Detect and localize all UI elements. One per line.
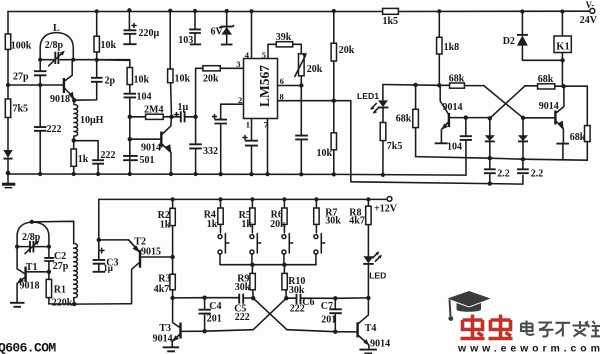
svg-text:C4: C4 (209, 301, 221, 312)
resistor 1k8 (437, 11, 460, 85)
node coil bottom (72, 138, 76, 142)
svg-text:1k: 1k (78, 154, 89, 165)
svg-text:www.eeworm.com: www.eeworm.com (457, 343, 600, 354)
node T4 collector (366, 296, 370, 300)
node rail R2 (171, 197, 175, 201)
svg-text:1k: 1k (160, 219, 171, 230)
wire base T2 (141, 256, 173, 258)
resistor R1 220k (46, 272, 73, 309)
node rail R7 (314, 197, 318, 201)
resistor 20k variable (295, 52, 323, 85)
resistor R2 1k (158, 199, 176, 257)
transistor Q 9014b left (435, 85, 463, 143)
resistor 68k right (570, 126, 590, 161)
svg-text:+12V: +12V (374, 204, 398, 215)
wire base 9014a (130, 138, 161, 140)
svg-text:6V: 6V (211, 27, 224, 38)
capacitor 222 emitter-left (34, 85, 62, 174)
node bus pin1 (249, 172, 253, 176)
svg-text:6: 6 (280, 76, 284, 86)
inductor 10uH (74, 100, 104, 140)
svg-text:4: 4 (245, 50, 250, 60)
node C7 bottom (333, 330, 337, 334)
wire base 9014c (523, 117, 555, 119)
svg-text:9015: 9015 (141, 247, 161, 258)
svg-text:9014: 9014 (443, 102, 463, 113)
node coil2 bottom (72, 302, 76, 306)
wire pin 6 (278, 76, 302, 86)
node tank2 left (15, 245, 19, 249)
capacitor 332 (189, 68, 218, 174)
node base T1 C2 (47, 270, 51, 274)
capacitor 220u (123, 10, 159, 44)
node tank left (38, 58, 42, 62)
capacitor 2.2 right (517, 159, 543, 179)
node rail 1k8 collector (437, 83, 441, 87)
svg-text:2.2: 2.2 (497, 168, 510, 179)
node tank 10k tap (95, 58, 99, 62)
svg-text:9018: 9018 (20, 281, 40, 292)
ground main (2, 171, 15, 188)
wire +12V rail (99, 198, 387, 200)
svg-text:201: 201 (321, 315, 336, 326)
node bus emitter 9014a (169, 172, 173, 176)
capacitor 103 (178, 11, 201, 46)
svg-text:2p: 2p (105, 75, 116, 86)
diode flipflop right (518, 118, 528, 159)
node pin6 20k (299, 83, 303, 87)
resistor 20k top right (331, 11, 355, 101)
resistor 100k (5, 34, 31, 52)
resistor 68k top right (538, 74, 555, 89)
resistor R9 30k (235, 265, 256, 298)
node base 9018 (38, 83, 63, 87)
node bus 222 (96, 172, 100, 176)
svg-text:T3: T3 (159, 323, 171, 334)
svg-text:30k: 30k (325, 215, 341, 226)
inductor loop antenna 2 (17, 222, 49, 247)
capacitor C7 201 (321, 298, 342, 331)
node rail R4 (218, 197, 222, 201)
node bus 7k5 (381, 173, 385, 177)
svg-text:20k: 20k (307, 64, 323, 75)
logo chongchong characters (461, 315, 513, 339)
node bus 10k4 (332, 172, 336, 176)
transistor T4 9014 (358, 298, 391, 354)
switch button 2 (250, 234, 261, 265)
svg-text:2M4: 2M4 (144, 105, 163, 116)
node rail collector right (562, 84, 566, 88)
node collector T3 (170, 296, 174, 300)
switch button 3 (282, 234, 293, 265)
node button bus R10 (282, 263, 286, 267)
resistor R3 4k7 (154, 257, 176, 298)
svg-text:1μ: 1μ (178, 102, 189, 113)
svg-text:10μH: 10μH (80, 115, 104, 126)
node rail R6 (282, 197, 286, 201)
node rail 68k2 (413, 83, 417, 87)
wire ground bus (8, 174, 466, 175)
capacitor 501 (123, 155, 154, 166)
wire button bus (220, 264, 316, 266)
node C5 right R9 (251, 296, 255, 300)
svg-text:20k: 20k (203, 73, 219, 84)
capacitor C5 222 (234, 294, 253, 323)
capacitor 104 mid (124, 91, 152, 174)
resistor 1k rf (71, 140, 89, 174)
wire bottom collector line T2 (49, 263, 139, 304)
LED LED1 (357, 85, 388, 123)
svg-text:5: 5 (262, 50, 266, 60)
inductor L loop antenna (40, 23, 73, 60)
svg-text:4k7: 4k7 (154, 284, 170, 295)
node top wire 20k (332, 9, 336, 13)
node base diagA (521, 116, 525, 120)
svg-text:10k: 10k (134, 74, 150, 85)
resistor 10k third (168, 11, 191, 117)
svg-text:103: 103 (178, 35, 193, 46)
node pin8line 2.2a (488, 181, 492, 185)
wire left edge vertical (7, 12, 9, 175)
svg-text:R1: R1 (54, 285, 66, 296)
svg-text:20k: 20k (270, 219, 286, 230)
svg-text:7k5: 7k5 (387, 141, 403, 152)
svg-text:LED: LED (369, 271, 386, 281)
node top wire 10k3 (168, 9, 172, 13)
wire pin 5 and resistor 39k (262, 32, 302, 60)
svg-text:10k: 10k (101, 40, 117, 51)
wire pin8 output net (334, 101, 523, 184)
svg-text:9018: 9018 (50, 94, 70, 105)
svg-text:222: 222 (290, 304, 305, 315)
wire flipflop left rail (383, 85, 484, 86)
transistor Q 9014a (141, 117, 172, 174)
resistor R10 30k (282, 265, 306, 298)
svg-text:9014: 9014 (141, 142, 161, 153)
node bus pin6cap (299, 172, 303, 176)
svg-text:4k7: 4k7 (349, 216, 365, 227)
node C7 top (333, 296, 337, 300)
resistor 1k5 (383, 8, 399, 27)
node bus 501 (128, 172, 132, 176)
terminal +12V (374, 197, 398, 215)
capacitor C6 222 (286, 294, 335, 315)
svg-text:D2: D2 (503, 36, 515, 47)
node bus pin2 (219, 172, 223, 176)
resistor 68k top left (449, 74, 465, 89)
node base 104 (464, 115, 468, 119)
svg-text:8: 8 (280, 92, 284, 102)
node C3 (97, 238, 101, 242)
capacitor 1u coupling (172, 102, 196, 122)
wire base T1 (27, 271, 49, 273)
svg-text:68k: 68k (570, 132, 586, 143)
node tank2 right (47, 245, 51, 249)
capacitor C4 201 (199, 298, 222, 332)
wire pin 4 (245, 9, 254, 60)
node top wire 6V (225, 9, 229, 13)
capacitor 2.2 left (484, 158, 510, 183)
node bus 332 (194, 172, 198, 176)
svg-text:9014: 9014 (370, 338, 390, 349)
node emitterline diode1 (488, 156, 492, 160)
capacitor pin6 filter (295, 86, 308, 175)
node top wire K1 (560, 9, 564, 13)
logo url (457, 343, 600, 354)
svg-text:30k: 30k (235, 282, 251, 293)
svg-text:104: 104 (137, 91, 152, 102)
node top wire 10k (95, 9, 99, 13)
logo site name chinese (521, 321, 600, 337)
node D2 K1 (560, 58, 564, 62)
svg-text:10k: 10k (317, 148, 333, 159)
node top wire 220u (127, 8, 131, 12)
svg-text:68k: 68k (449, 74, 465, 85)
svg-text:1k: 1k (207, 219, 218, 230)
resistor 20k input (196, 66, 244, 85)
node rail R8 (366, 197, 370, 201)
wire T4 base line (287, 330, 357, 332)
node bus 222-left (38, 172, 42, 176)
svg-text:501: 501 (140, 155, 155, 166)
wire T4 collector row (335, 297, 368, 299)
switch button 4 (314, 234, 325, 265)
node 1u right (193, 115, 197, 119)
svg-text:C7: C7 (321, 301, 333, 312)
svg-text:220μ: 220μ (139, 28, 160, 39)
node C4 top (202, 296, 206, 300)
node tank right (71, 58, 75, 62)
svg-text:3: 3 (236, 59, 240, 69)
node pin8 (332, 99, 336, 103)
resistor R7 30k (314, 199, 342, 232)
node base 9014a (128, 137, 132, 141)
switch button 1 (218, 234, 229, 265)
node emitterline diode2 (521, 157, 525, 161)
svg-text:LM567: LM567 (257, 65, 272, 107)
diode D1 (3, 150, 12, 159)
capacitor 104 flipflop (447, 118, 472, 176)
capacitor 222 rf (74, 141, 116, 174)
wire cross coupling B2 (253, 298, 286, 330)
transistor T1 9018 (10, 247, 40, 307)
resistor 2M4 (130, 105, 172, 120)
capacitor 2/8p variable 2 (17, 232, 49, 254)
wire base T3 (181, 330, 253, 332)
wire flipflop emitter line (416, 157, 588, 161)
resistor R4 1k (204, 199, 224, 232)
resistor R8 4k7 (349, 199, 371, 256)
wire pin 1 and capacitor (243, 119, 258, 175)
LED indicator bottom (363, 251, 386, 298)
wire cross coupling A2 (253, 298, 287, 330)
node top wire 1k8 (437, 9, 441, 13)
node arch top tap (30, 220, 34, 224)
op-amp U1 LM567 (244, 59, 278, 119)
svg-text:K1: K1 (556, 41, 569, 52)
resistor 10k mid (97, 60, 150, 93)
wire arch top to coil (32, 221, 74, 243)
svg-text:20k: 20k (339, 45, 355, 56)
transistor T3 9014 (153, 298, 181, 351)
inductor choke 2 (74, 244, 78, 305)
diode zener 6V (211, 11, 235, 45)
svg-text:39k: 39k (276, 32, 292, 43)
resistor 10k fourth (317, 101, 337, 175)
node top wire D2 (520, 9, 524, 13)
svg-text:222: 222 (101, 150, 116, 161)
svg-text:27p: 27p (13, 71, 29, 82)
node base diagB (488, 116, 492, 120)
transistor Q 9014c right (539, 86, 569, 159)
svg-text:1k8: 1k8 (444, 42, 460, 53)
svg-text:222: 222 (235, 312, 250, 323)
svg-text:V-: V- (586, 0, 595, 10)
svg-text:222: 222 (47, 124, 62, 135)
svg-text:27p: 27p (53, 261, 69, 272)
node junction left-85 (6, 83, 40, 87)
wire pin 8 (278, 92, 334, 102)
node rail R5 (250, 197, 254, 201)
capacitor C3 1u (93, 240, 119, 273)
wire cross coupling A (484, 86, 523, 118)
svg-text:2/8p: 2/8p (22, 232, 41, 243)
svg-text:2.2: 2.2 (531, 168, 544, 179)
svg-text:68k: 68k (538, 74, 554, 85)
node 1u left (169, 115, 173, 119)
svg-text:68k: 68k (396, 113, 412, 124)
transistor T2 9015 (129, 237, 161, 268)
svg-text:104: 104 (447, 141, 462, 152)
node button bus R9 (250, 263, 254, 267)
node emitter 9018 (72, 98, 76, 102)
resistor 7k5 (5, 99, 28, 118)
resistor 7k5 LED1 (380, 123, 402, 175)
watermark Q606.COM (0, 341, 56, 354)
wire flipflop right rail (525, 86, 587, 126)
terminal V- 24V (580, 0, 598, 26)
diode D2 (503, 12, 563, 61)
svg-text:T4: T4 (365, 323, 377, 334)
svg-text:100k: 100k (11, 41, 32, 52)
pin 3 label (236, 59, 240, 69)
logo graduation cap (448, 291, 491, 321)
wire top supply rail left segment (8, 11, 383, 13)
resistor R6 20k (270, 199, 287, 232)
svg-text:1: 1 (246, 119, 250, 129)
node R10 bottom (284, 296, 288, 300)
capacitor 27p (13, 60, 46, 85)
svg-text:LED1: LED1 (357, 91, 379, 101)
svg-text:1μ: 1μ (103, 263, 113, 273)
node bus 1k (72, 172, 76, 176)
svg-text:220k: 220k (52, 297, 73, 308)
node C4 bottom (202, 329, 206, 333)
svg-text:332: 332 (203, 146, 218, 157)
node top wire 103 (193, 9, 197, 13)
resistor 10k tank (94, 11, 117, 60)
wire base 9014b (450, 117, 490, 119)
svg-text:2/8p: 2/8p (45, 40, 64, 51)
resistor R5 1k (239, 199, 255, 232)
svg-text:1k: 1k (241, 219, 252, 230)
wire top supply rail right segment (398, 10, 589, 12)
svg-text:L: L (53, 23, 60, 34)
wire T2 emitter feed (99, 240, 140, 252)
svg-text:201: 201 (207, 314, 222, 325)
diode flipflop left (485, 118, 495, 158)
node base T2 (170, 255, 174, 259)
transistor Q 9018 (50, 60, 74, 105)
wire cross coupling B (490, 86, 525, 119)
svg-text:10k: 10k (175, 73, 191, 84)
wire collector T3 row (173, 297, 239, 299)
wire pin 2 and capacitor (213, 95, 244, 174)
svg-text:24V: 24V (580, 15, 598, 26)
capacitor C2 27p (44, 247, 69, 272)
relay K1 (554, 12, 571, 87)
wire rail left drop (98, 199, 100, 240)
node bus pin7 (265, 172, 269, 176)
svg-text:7k5: 7k5 (13, 104, 29, 115)
capacitor 2p (74, 60, 115, 100)
wire pin 7 (264, 119, 269, 175)
node 2M4 left (128, 115, 132, 119)
svg-text:9014: 9014 (539, 101, 559, 112)
svg-text:1k5: 1k5 (383, 16, 399, 27)
svg-text:2: 2 (238, 95, 242, 105)
svg-text:7: 7 (264, 119, 269, 129)
svg-text:9014: 9014 (153, 334, 173, 345)
capacitor 2/8p variable (40, 40, 130, 66)
resistor 68k second (396, 85, 419, 157)
svg-text:Q606.COM: Q606.COM (0, 341, 56, 354)
